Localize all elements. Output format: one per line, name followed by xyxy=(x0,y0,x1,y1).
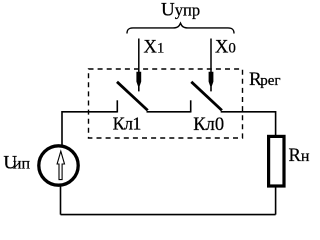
wire: switch 2 to load xyxy=(221,112,276,136)
switch Кл0 contact tick xyxy=(190,100,192,112)
switch Кл0 blade xyxy=(191,82,222,111)
svg-text:Rн: Rн xyxy=(289,146,310,166)
svg-text:Rрег: Rрег xyxy=(249,69,281,90)
source Uип circle xyxy=(39,146,78,185)
wire: source top to switch 1 xyxy=(62,112,117,145)
svg-text:X0: X0 xyxy=(215,38,236,58)
wire: source bottom xyxy=(60,187,62,215)
resistor Rн xyxy=(269,136,284,186)
source arrow xyxy=(57,151,64,179)
wire: bottom return xyxy=(61,214,276,216)
wire: load bottom xyxy=(275,187,277,215)
arrowhead X1 xyxy=(136,72,141,92)
svg-text:Uупр: Uупр xyxy=(161,0,200,21)
dashed box Rрег (regulating resistor block) xyxy=(89,69,243,138)
wire: switch 1 to switch 2 xyxy=(147,111,191,113)
brace over control lines xyxy=(127,23,234,33)
control line X1 xyxy=(138,39,140,74)
control line X0 xyxy=(210,39,212,74)
svg-text:Кл1: Кл1 xyxy=(113,114,141,134)
svg-text:X1: X1 xyxy=(144,38,165,58)
switch Кл1 blade xyxy=(117,82,148,111)
switch Кл1 contact tick xyxy=(116,100,118,112)
arrowhead X0 xyxy=(209,72,214,92)
svg-text:Кл0: Кл0 xyxy=(193,115,224,135)
svg-text:Uип: Uип xyxy=(3,152,30,173)
